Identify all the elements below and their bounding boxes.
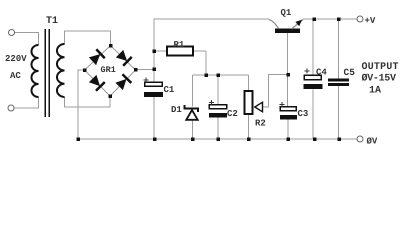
wire top rail right — [303, 18, 357, 20]
wire R1 leads — [154, 51, 206, 75]
wire bridge diamond — [85, 46, 136, 97]
capacitor C3 — [280, 102, 298, 120]
terminal +V output — [357, 16, 363, 22]
terminal 220V top — [9, 30, 15, 36]
junction C5 bottom on 0V rail — [337, 137, 341, 141]
wire secondary bottom to bridge S — [65, 96, 111, 107]
resistor R1 — [167, 47, 193, 56]
label C5 — [344, 69, 355, 75]
junction R1 output on mid bus — [204, 73, 208, 77]
transformer T1 primary winding — [32, 45, 39, 97]
label 0V-15V — [362, 74, 396, 81]
zener diode D1 — [185, 105, 199, 120]
label Q1 — [281, 9, 291, 17]
wire D1 top lead — [192, 75, 194, 107]
wire C1 bottom — [153, 97, 155, 139]
wire main vertical upper — [153, 19, 155, 83]
junction bridge E wire on main vertical — [152, 67, 156, 71]
bridge diode bottom-right — [115, 74, 132, 91]
junction C4 top on +V rail — [312, 17, 316, 21]
junction C5 top on +V rail — [337, 17, 341, 21]
junction bridge S node — [108, 94, 112, 98]
label C3 — [298, 110, 308, 116]
junction R1 left / rectifier + node — [152, 49, 156, 53]
wire R2 wiper to base — [263, 75, 289, 108]
junction R2 bottom on 0V rail — [247, 137, 251, 141]
wire C2 leads — [217, 75, 219, 139]
wire top rail left — [154, 18, 269, 20]
wire C4 leads — [312, 19, 314, 139]
junction C1 bottom on 0V rail — [153, 137, 157, 141]
label R2 — [256, 119, 266, 125]
wire Q1 base / C3 top — [287, 33, 289, 106]
capacitor C5 — [328, 79, 349, 87]
capacitor C2 — [209, 100, 227, 118]
wire C5 leads — [338, 19, 340, 139]
label AC — [10, 72, 21, 78]
label C1 — [164, 86, 174, 92]
junction C2 top on mid bus — [216, 73, 220, 77]
label OUTPUT — [362, 62, 398, 69]
bridge diode bottom-left — [88, 74, 105, 91]
capacitor C4 — [304, 69, 323, 90]
label C4 — [316, 68, 326, 74]
wire bridge E to main node — [136, 69, 155, 71]
label T1 — [46, 16, 57, 23]
wire D1 bottom lead — [192, 121, 194, 140]
capacitor C1 — [144, 78, 164, 98]
transistor Q1 — [269, 20, 303, 33]
wire mid bus — [193, 74, 249, 76]
label C2 — [227, 110, 237, 116]
wire bridge W to ground rail — [78, 70, 85, 139]
transformer T1 secondary winding — [57, 44, 65, 97]
junction C3 bottom on 0V rail — [286, 137, 290, 141]
label R1 — [174, 41, 184, 47]
junction C4 bottom on 0V rail — [313, 137, 317, 141]
bridge diode top-left — [88, 49, 105, 66]
potentiometer R2 — [245, 91, 263, 114]
label +V — [365, 17, 375, 23]
wire R2 leads — [248, 75, 250, 139]
junction D1 bottom on 0V rail — [191, 137, 195, 141]
wire secondary top to bridge N — [65, 31, 111, 46]
junction C2 bottom on 0V rail — [216, 137, 220, 141]
wire C3 bottom — [287, 120, 289, 140]
label 0V — [367, 137, 378, 143]
junction bridge N node — [109, 44, 113, 48]
label GR1 — [101, 66, 116, 72]
wire ground rail — [78, 138, 357, 140]
junction bridge W node — [83, 68, 87, 72]
terminal 220V bottom — [8, 105, 14, 111]
terminal 0V output — [357, 136, 363, 142]
label D1 — [172, 106, 182, 112]
bridge diode top-right — [115, 49, 132, 66]
junction bridge W drop on 0V rail — [76, 137, 80, 141]
junction Q1 base / wiper node — [286, 73, 290, 77]
wire primary bottom — [14, 97, 39, 108]
wire primary top — [15, 33, 39, 46]
junction bridge E node — [134, 68, 138, 72]
label 1A — [370, 86, 381, 93]
label 220V — [6, 55, 27, 61]
transformer T1 core — [45, 29, 49, 117]
